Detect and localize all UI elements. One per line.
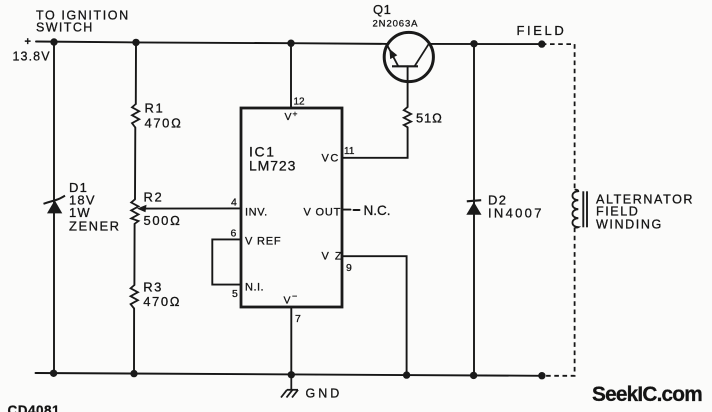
diode D2 cathode bar — [467, 200, 481, 201]
svg-text:470Ω: 470Ω — [143, 294, 181, 309]
wire R divider branch: top rail to R1 — [135, 42, 137, 104]
svg-text:N.C.: N.C. — [364, 203, 391, 218]
junction dot top rail at pin 12 — [287, 40, 294, 47]
svg-text:SeekIC.com: SeekIC.com — [592, 383, 702, 406]
ground symbol stub — [290, 375, 292, 390]
wire IC pin 12 to top rail — [290, 43, 292, 108]
svg-text:VC: VC — [322, 153, 340, 165]
svg-text:+: + — [25, 36, 31, 48]
junction dot bottom rail at R3 — [130, 370, 137, 377]
svg-text:−: − — [292, 291, 297, 301]
transistor Q1 collector lead — [415, 44, 429, 66]
wire dash before N.C. label — [354, 209, 360, 211]
resistor 51 ohm zigzag — [404, 107, 411, 127]
wire IC pin 6 to pin 5 feedback loop — [212, 239, 241, 284]
junction dot top rail at D1 — [50, 38, 57, 45]
wire 51 ohm to IC pin 11 — [342, 127, 408, 158]
junction dot top rail at R1 — [132, 39, 139, 46]
junction dot bottom rail at D1 — [50, 370, 57, 377]
junction dot bottom rail at D2 — [470, 372, 477, 379]
svg-text:13.8V: 13.8V — [13, 50, 51, 64]
svg-text:4: 4 — [231, 197, 237, 209]
svg-text:Q1: Q1 — [373, 2, 391, 17]
inductor alternator field winding coil — [572, 190, 578, 228]
svg-text:500Ω: 500Ω — [144, 213, 182, 228]
svg-text:470Ω: 470Ω — [145, 116, 183, 131]
diode D2 triangle — [466, 202, 481, 215]
wire D1 branch vertical — [53, 42, 55, 373]
resistor R1 zigzag — [132, 104, 139, 128]
ground symbol hatching — [281, 390, 298, 398]
wire Q1 base lead down to 51 ohm resistor — [407, 66, 409, 107]
wire IC pin 9 VZ to bottom rail — [342, 256, 407, 375]
svg-text:FIELD: FIELD — [517, 23, 567, 38]
svg-text:6: 6 — [231, 228, 237, 240]
zener diode D1 cathode bar — [44, 196, 66, 204]
svg-text:+: + — [293, 109, 298, 119]
wire D2 branch vertical — [473, 44, 475, 376]
wire R1 to R2 — [134, 128, 136, 200]
svg-text:LM723: LM723 — [249, 158, 296, 174]
svg-text:11: 11 — [344, 146, 355, 157]
svg-text:51Ω: 51Ω — [416, 111, 443, 126]
IC1 box outline — [241, 108, 342, 307]
svg-text:9: 9 — [346, 262, 352, 274]
zener diode D1 triangle — [47, 200, 62, 213]
wire IC pin 7 to ground rail — [290, 307, 292, 375]
svg-text:GND: GND — [306, 387, 343, 401]
svg-text:SWITCH: SWITCH — [36, 21, 94, 35]
inductor core bar 1 — [582, 191, 584, 227]
svg-text:R1: R1 — [145, 101, 165, 116]
svg-text:R3: R3 — [143, 280, 163, 295]
svg-text:12: 12 — [294, 97, 306, 108]
svg-text:ZENER: ZENER — [69, 219, 121, 234]
junction dot bottom rail right end — [538, 372, 545, 379]
junction dot bottom rail at pin 7 / GND — [288, 371, 295, 378]
transistor Q1 base bar — [392, 65, 418, 67]
transistor Q1 circle — [384, 32, 433, 81]
svg-text:7: 7 — [295, 313, 301, 325]
svg-text:N.I.: N.I. — [245, 282, 264, 294]
svg-text:FIELD: FIELD — [596, 205, 639, 219]
svg-text:R2: R2 — [144, 190, 164, 205]
svg-text:V REF: V REF — [245, 236, 281, 248]
svg-text:2N2063A: 2N2063A — [373, 19, 419, 30]
transistor Q1 emitter lead — [387, 44, 399, 66]
wire top rail left segment — [36, 42, 387, 44]
resistor R2 zigzag (potentiometer) — [131, 199, 138, 224]
wire top rail right segment (collector to FIELD) — [430, 43, 542, 45]
svg-text:V OUT: V OUT — [304, 207, 342, 219]
wire IC pin 10 VOUT stub — [342, 209, 351, 211]
svg-text:CD4081: CD4081 — [8, 403, 61, 412]
wire dashed top right to winding — [542, 44, 575, 189]
inductor core bar 2 — [586, 191, 588, 227]
junction dot bottom rail at pin 9 branch — [403, 371, 410, 378]
svg-text:INV.: INV. — [245, 207, 268, 219]
svg-text:5: 5 — [232, 288, 238, 300]
svg-text:V: V — [285, 111, 292, 123]
wire R2 to R3 — [133, 224, 135, 285]
svg-text:V Z: V Z — [322, 251, 344, 263]
wire IC pin 4 to R2 wiper — [144, 207, 241, 209]
wire bottom rail — [36, 373, 543, 376]
wire R3 to bottom rail — [133, 309, 135, 374]
R2 wiper arrowhead — [137, 205, 147, 212]
svg-text:IN4007: IN4007 — [488, 206, 544, 221]
svg-text:WINDING: WINDING — [596, 218, 663, 232]
transistor Q1 emitter arrowhead — [389, 49, 397, 59]
junction dot FIELD — [538, 40, 545, 47]
resistor R3 zigzag — [131, 285, 138, 309]
wire dashed winding to bottom rail — [542, 228, 575, 376]
svg-text:V: V — [284, 295, 291, 307]
junction dot top rail at D2 — [470, 40, 477, 47]
